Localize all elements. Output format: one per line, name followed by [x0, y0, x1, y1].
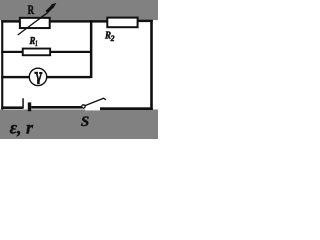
- svg-text:R: R: [28, 2, 35, 17]
- svg-text:ε, r: ε, r: [10, 117, 34, 137]
- svg-text:2: 2: [110, 33, 116, 43]
- svg-text:1: 1: [35, 38, 37, 48]
- svg-text:S: S: [81, 114, 89, 130]
